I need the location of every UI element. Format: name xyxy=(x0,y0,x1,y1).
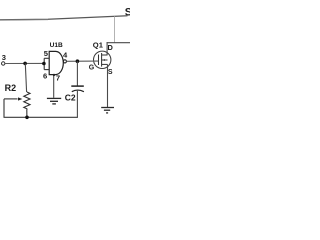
wire input from pin 3 xyxy=(5,62,44,64)
transistor Q1 substrate stub with arrow xyxy=(102,59,108,61)
transistor Q1 drain stub xyxy=(102,54,108,56)
svg-text:R2: R2 xyxy=(5,83,17,93)
node junction (input wire / R2) xyxy=(23,62,27,66)
wire top rail xyxy=(0,16,128,20)
op-amp U1B output bubble xyxy=(63,60,66,63)
node junction (R2 bottom / rail) xyxy=(25,116,29,120)
wire drain drop from top rail xyxy=(114,16,116,43)
resistor R2 lead from junction xyxy=(25,63,26,92)
op-amp U1B (gate body) xyxy=(49,51,63,74)
svg-text:G: G xyxy=(89,64,95,71)
wire junction down to C2 xyxy=(76,61,78,85)
svg-text:S: S xyxy=(108,69,113,76)
svg-text:U1B: U1B xyxy=(50,42,63,49)
wire U1B output to Q1 gate xyxy=(66,60,98,62)
resistor R2 bottom lead xyxy=(26,110,28,117)
wire drain down into Q1 xyxy=(106,42,108,55)
svg-text:6: 6 xyxy=(43,71,47,80)
svg-text:Q1: Q1 xyxy=(93,40,104,49)
wire wiper down to bottom rail xyxy=(3,99,5,117)
capacitor C2 curved bottom plate xyxy=(72,90,84,92)
wire input stub to pin 6 xyxy=(44,69,49,71)
wire input bracket vertical xyxy=(43,58,45,69)
svg-text:S: S xyxy=(125,7,130,19)
wire bottom rail xyxy=(4,116,78,118)
wire drain horizontal to right edge xyxy=(107,42,131,44)
ground (under U1B pin 7) xyxy=(47,98,61,104)
svg-text:7: 7 xyxy=(56,74,60,83)
pin connector 3 (left input) xyxy=(2,62,5,65)
wire U1B pin 7 to ground xyxy=(53,75,55,98)
capacitor C2 top plate xyxy=(71,85,84,87)
wire C2 down to bottom rail xyxy=(76,90,78,117)
node junction at U1B inputs xyxy=(42,62,46,66)
svg-text:D: D xyxy=(108,43,114,52)
svg-text:3: 3 xyxy=(2,53,6,62)
ground (under Q1 source) xyxy=(101,108,114,113)
transistor Q1 gate bar xyxy=(98,55,100,66)
transistor Q1 source stub xyxy=(102,63,108,65)
resistor R2 zigzag body xyxy=(24,92,30,110)
node junction (output / C2) xyxy=(76,59,80,63)
transistor Q1 channel bar xyxy=(101,53,103,67)
wire input stub to pin 5 xyxy=(44,57,49,59)
transistor Q1 body circle xyxy=(94,51,111,68)
svg-text:C2: C2 xyxy=(65,93,76,103)
R2 wiper arrow xyxy=(4,98,18,100)
wire source down to ground xyxy=(107,64,109,107)
